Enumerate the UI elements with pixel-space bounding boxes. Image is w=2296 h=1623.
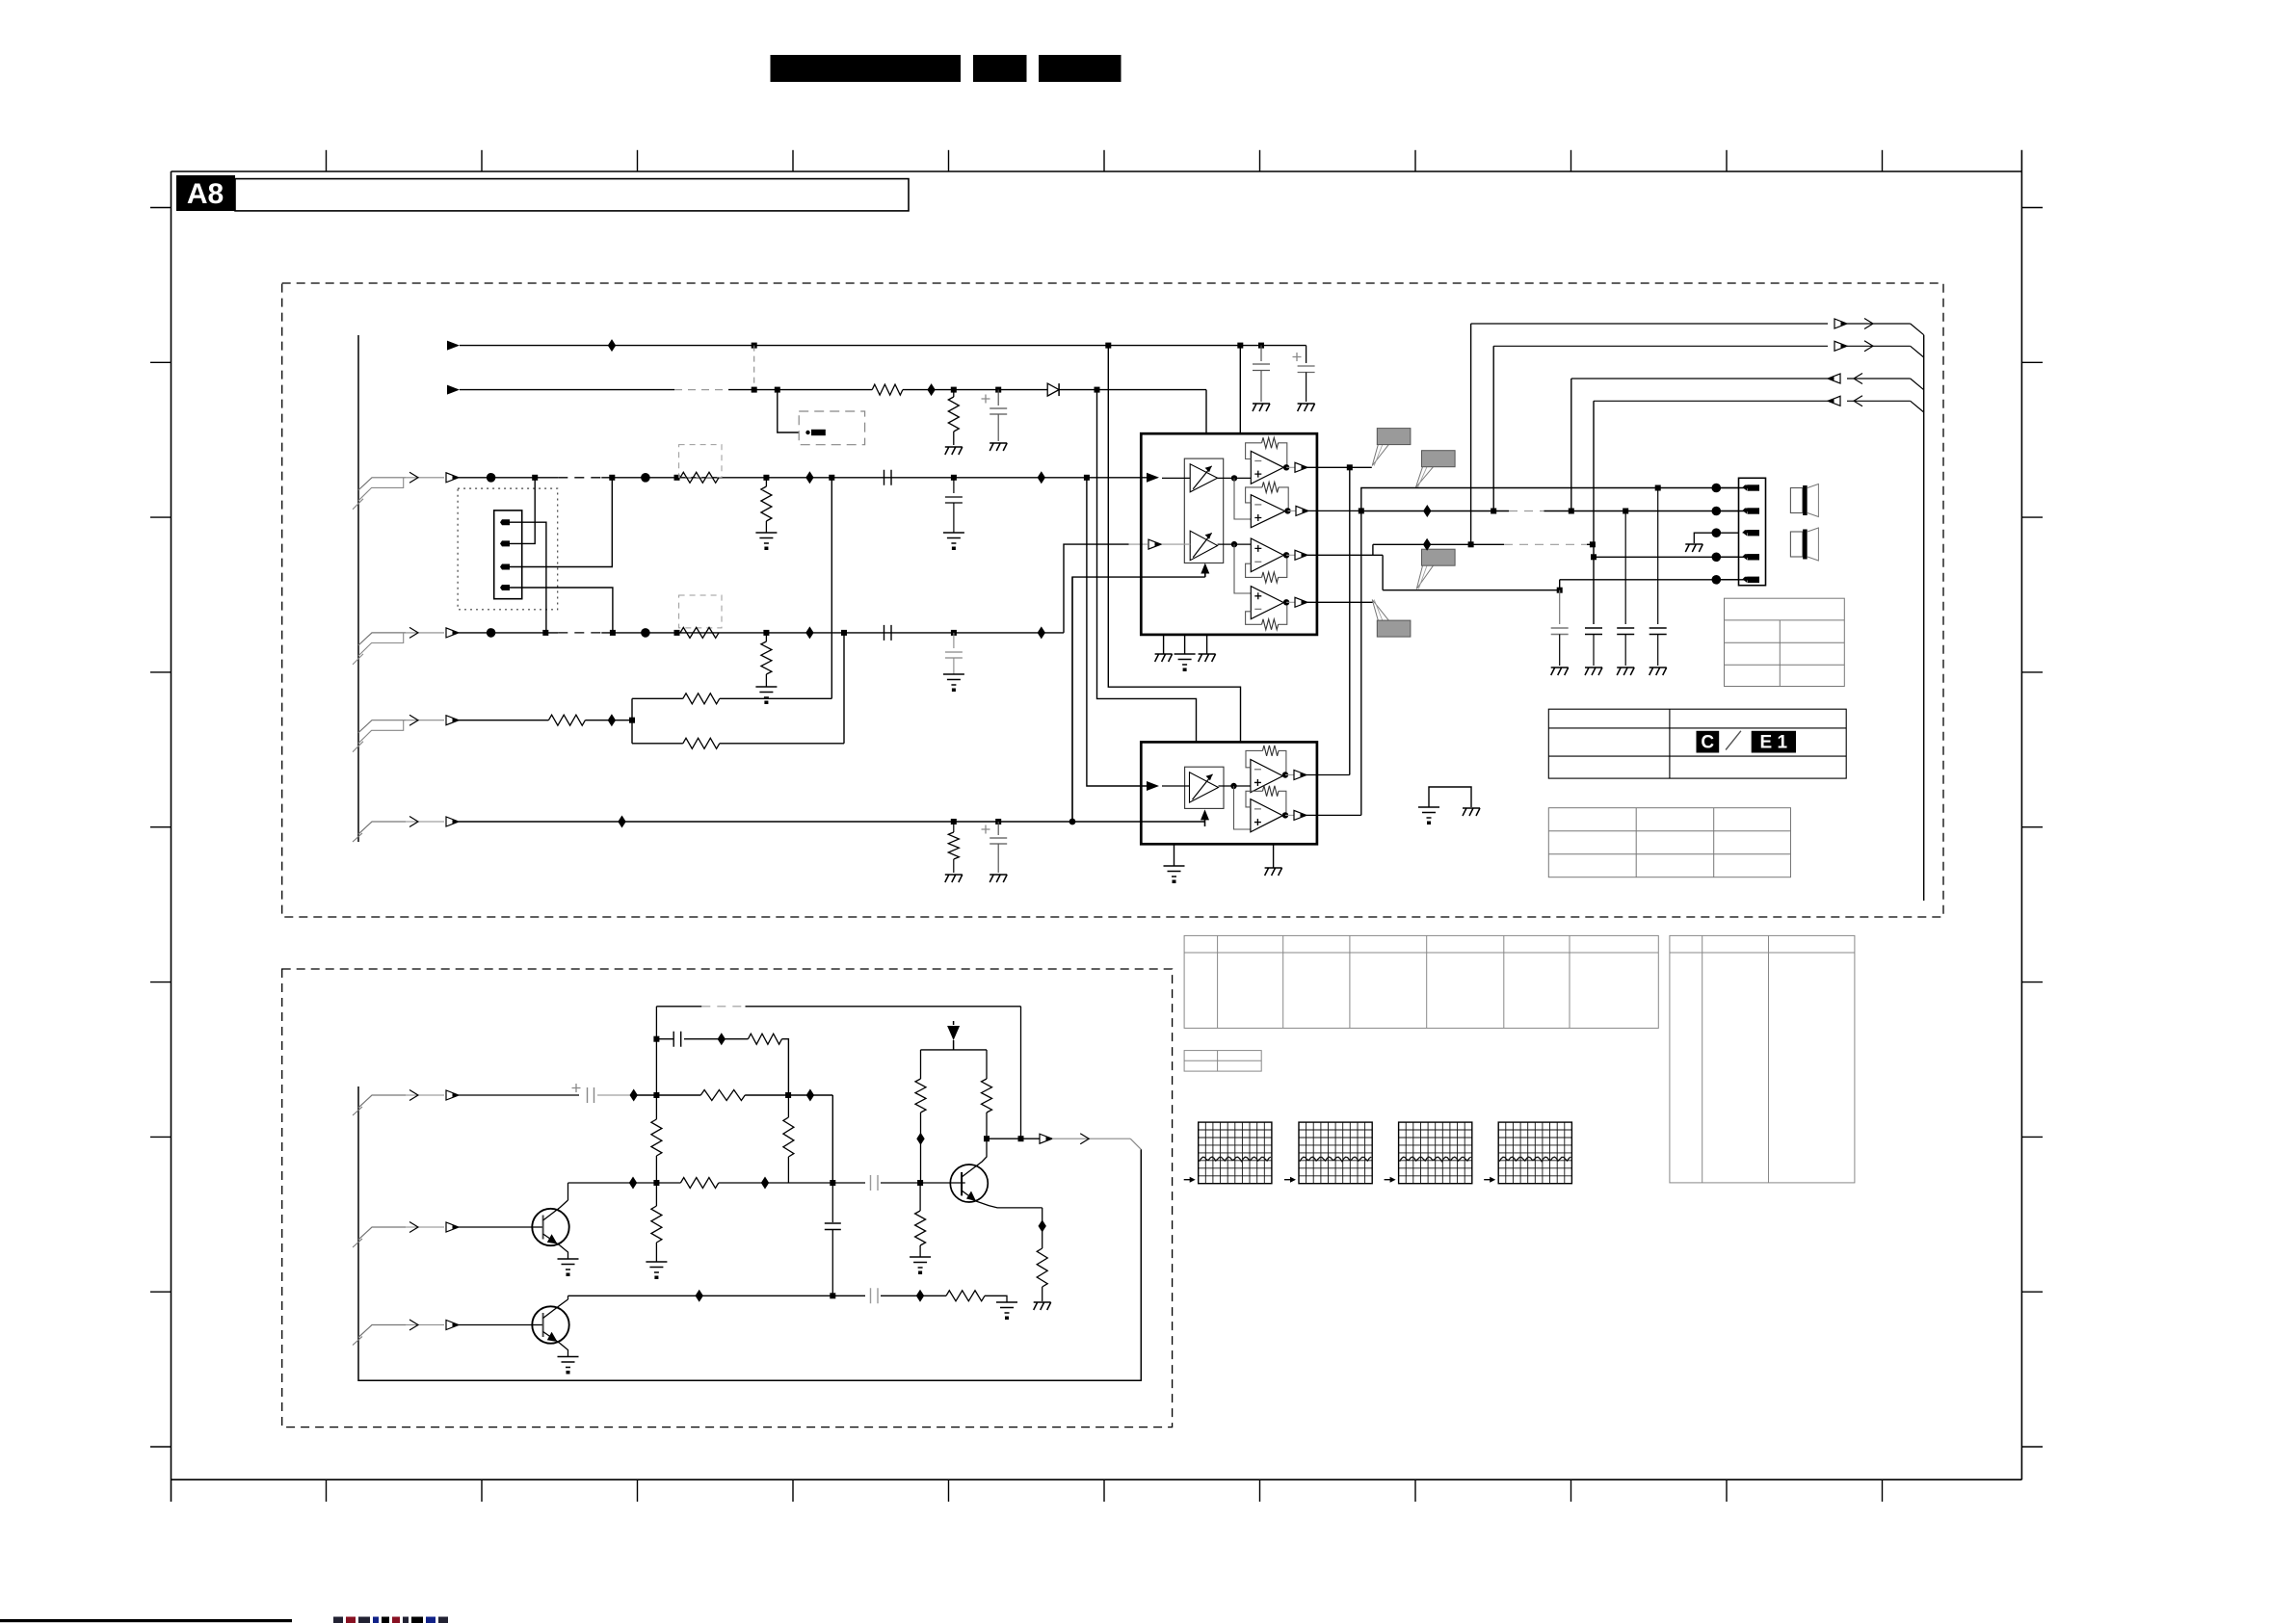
wire U1-2/U2-2 tie riser: [1360, 510, 1362, 815]
node route low riser: [1557, 588, 1563, 593]
junction diamond Q3 emitter: [1042, 1208, 1043, 1248]
wire L to IC2 input rail: [1087, 478, 1148, 786]
node line2 C-c tap: [995, 387, 1001, 393]
open arrow (buffer in 2): [446, 1222, 459, 1232]
chevron out1: [1864, 319, 1873, 329]
feedback resistor U1-1: [1279, 443, 1287, 468]
node B2 riser: [830, 1180, 835, 1186]
junction diamond vol: [618, 816, 625, 828]
node line C to D riser: [1590, 541, 1596, 547]
ground (C-Lg): [943, 533, 964, 543]
table T3 (notes): [1548, 808, 1790, 877]
audio block dashed boundary: [282, 283, 1943, 917]
terminal dot line D: [1712, 553, 1722, 563]
open arrow (R input): [446, 628, 459, 638]
capacitor C-c electrolytic (line2): [997, 390, 999, 406]
capacitor C-L series: [884, 470, 892, 485]
node L pin2 tap: [532, 475, 538, 481]
arrow into IC1 in1: [1147, 473, 1159, 483]
bus diagonal out2: [1911, 346, 1924, 357]
feedback resistor U1-2: [1279, 487, 1288, 511]
node U1-4 out: [1283, 599, 1289, 605]
U1 variable amp A2: [1190, 531, 1217, 561]
op-amp U1-2: [1251, 495, 1284, 528]
open arrow in1: [1828, 374, 1840, 383]
resistor R-B3: [946, 1291, 985, 1301]
test flag TP3: [1416, 565, 1433, 589]
connector CN2 pin 3: [1742, 530, 1750, 533]
node bus1 drop: [1468, 541, 1474, 547]
wire A2 out to op4+: [1234, 544, 1251, 593]
bundle entry diagonal (buffer in 3): [358, 1325, 406, 1338]
node line D start: [1591, 554, 1597, 560]
wire CN1 pin3 to L line: [510, 478, 612, 567]
open arrow (buffer in 3): [446, 1321, 459, 1330]
wire mono line: [459, 720, 548, 721]
node R shunt C tap: [951, 630, 957, 636]
node b1 bias: [653, 1092, 659, 1098]
node b1 fb: [785, 1092, 791, 1098]
node line1 to vertical rail: [1105, 343, 1111, 349]
junction diamond on line 1: [608, 339, 616, 352]
service jumper dashed box: [799, 411, 864, 445]
connector dotted enclosure: [458, 488, 558, 610]
arrow into IC2 input: [1147, 781, 1159, 791]
alt part dashed outline (R-L): [679, 445, 722, 478]
bus diagonal in2: [1911, 401, 1924, 412]
waveform W2 oscillogram grid: [1299, 1122, 1372, 1184]
node tie1: [1347, 464, 1353, 470]
node R pin4 tap: [610, 630, 616, 636]
sheet title box (blank): [235, 179, 909, 211]
capacitor C-B3 series (gray): [871, 1288, 879, 1303]
ground U2 pin a: [1174, 844, 1175, 866]
ground (bridge right): [1463, 808, 1480, 816]
wire to service jumper: [778, 390, 799, 432]
bus diagonal out1: [1911, 324, 1924, 335]
wire Q1 collector riser: [567, 1183, 569, 1200]
ground (C-sp1): [1551, 668, 1569, 675]
wire L line: [459, 477, 558, 479]
wire U2 amp out to op2+: [1234, 786, 1251, 829]
U1 variable amp A1: [1190, 464, 1217, 492]
ground (C-sp2): [1585, 668, 1602, 675]
wire buffer out (gray): [1052, 1138, 1130, 1139]
resistor R-vol shunt: [953, 822, 955, 832]
node vol IC1 branch: [1069, 819, 1076, 825]
wire U1-4 out: [1286, 601, 1295, 603]
mix resistor R-mixR: [632, 743, 683, 745]
bus wire out1: [1471, 323, 1828, 325]
op-amp U1-1: [1251, 451, 1283, 484]
wire bus3 riser: [1570, 379, 1572, 511]
node A2 out: [1218, 543, 1252, 545]
node U2-1 out: [1282, 772, 1288, 777]
wire after diode: [1059, 389, 1206, 391]
table T2 (version C/E1): [1548, 709, 1846, 778]
lower block dashed boundary: [282, 969, 1173, 1427]
junction diamond fb: [718, 1033, 726, 1045]
terminal dot line E: [1712, 575, 1722, 585]
resistor R-b1 series: [700, 1090, 745, 1101]
chevron arrow (mono input): [409, 715, 418, 725]
capacitor C-b electrolytic (line1): [1306, 346, 1307, 363]
node L series R tap: [674, 475, 680, 481]
ground (C-sp4): [1649, 668, 1667, 675]
ground (C-b): [1298, 404, 1315, 411]
connector CN2 pin 2: [1742, 509, 1750, 511]
supply feed arrow: [953, 1021, 955, 1025]
open arrow out1: [1834, 319, 1847, 328]
connector CN1 pin 4: [497, 585, 510, 590]
connector CN1 pin 2: [497, 540, 510, 546]
feedback resistor U1-3: [1279, 555, 1287, 577]
speaker SP1: [1790, 488, 1803, 513]
U1 control arrow: [1204, 573, 1206, 577]
connector CN1 pin 1: [497, 519, 510, 525]
wire CN1 pin4 to R line: [510, 588, 613, 633]
wire line1 rail to IC2 Vcc: [1108, 346, 1240, 743]
wire R line: [459, 632, 558, 634]
chevron arrow (buffer in 1): [409, 1090, 418, 1101]
wire U1 in1 to A1: [1162, 477, 1190, 479]
wire buffer in1: [459, 1094, 579, 1096]
U2 control arrow: [1204, 820, 1206, 826]
sheet border grid ticks: [150, 150, 2043, 1502]
wire top rail drop: [1020, 1007, 1022, 1139]
wire bus2 riser: [1492, 346, 1494, 510]
node line1 cap C-a tap: [1258, 343, 1264, 349]
diode D1: [1047, 383, 1059, 396]
bundle pair return (L input): [358, 478, 404, 501]
wire R riser to IC1 in2: [1064, 544, 1129, 633]
bundle entry diagonal (buffer in 1): [358, 1095, 406, 1108]
resistor R-bias2: [655, 1183, 657, 1206]
node L pin3 tap: [609, 475, 615, 481]
resistor R-e3: [1037, 1248, 1047, 1287]
bundle pair return (R input): [358, 633, 404, 656]
U1 volume cell box: [1184, 458, 1223, 563]
wire Q2 collector riser: [567, 1296, 569, 1299]
resistor R-L series: [680, 472, 719, 483]
connector CN2 pin 4: [1742, 554, 1750, 557]
chevron arrow (L input): [409, 472, 418, 483]
junction diamond R: [805, 626, 813, 639]
capacitor C-fb series: [673, 1032, 681, 1047]
table T5 (small legend): [1184, 1051, 1261, 1072]
buffer out corner diagonal: [1130, 1139, 1141, 1149]
bundle entry diagonal (mono input): [358, 720, 406, 733]
wire bus1 riser: [1470, 324, 1472, 544]
ground pigtail CN2 pin3: [1712, 528, 1722, 537]
wire speaker line C: [1373, 543, 1504, 545]
ground (C-Rg): [943, 674, 964, 685]
buffer block trunk / frame: [358, 1086, 1141, 1380]
node line1 IC1 Vcc drop: [1237, 343, 1243, 349]
ground U1 pin b: [1184, 635, 1186, 654]
bundle entry diagonal (R input): [358, 633, 406, 645]
wire feedback mid rail: [656, 1038, 673, 1040]
version tag C: [1697, 731, 1720, 753]
wire speaker line B (SP L-): [1361, 510, 1509, 512]
open arrow (mono input): [446, 716, 459, 725]
wire U1-3 out: [1286, 554, 1295, 556]
wire Q2 in: [459, 1324, 533, 1326]
junction diamond B3-a: [696, 1290, 703, 1302]
resistor R-c2 (right): [986, 1050, 988, 1079]
wire speaker line A (SP L+): [1361, 488, 1748, 511]
speaker connector CN2 body: [1739, 478, 1766, 585]
wire supply line 1: [460, 345, 1306, 347]
capacitor C-Lg shunt: [953, 478, 955, 493]
bundle entry diagonal (L input): [358, 478, 406, 490]
sheet label A8: [176, 175, 235, 211]
op-amp IC U2 body: [1141, 742, 1317, 844]
wire base line B2: [568, 1182, 681, 1184]
resistor R-b1b (interstage): [787, 1095, 789, 1117]
test point dot R-b: [641, 628, 650, 638]
node line2 dashed tap: [752, 387, 757, 393]
capacitor C-b1 electrolytic series: [572, 1084, 581, 1092]
junction diamond line 2: [927, 383, 935, 396]
wire speaker line E (SP R-): [1560, 579, 1748, 581]
node bus3 drop: [1569, 509, 1574, 514]
wire U1-2 out: [1288, 510, 1297, 511]
node U1-2 out: [1284, 508, 1290, 513]
node B2 Q3 base divider: [917, 1180, 923, 1186]
version slash: [1726, 731, 1741, 750]
wire U1-3 branch up: [1372, 544, 1374, 555]
wire U1-3 branch down: [1382, 555, 1384, 589]
footer rule bar: [0, 1619, 292, 1622]
wire Q1 in: [459, 1226, 533, 1228]
wire A1 out to op2+: [1234, 478, 1251, 519]
terminal dot line A: [1712, 484, 1722, 493]
wire speaker line D (SP R+): [1594, 556, 1748, 558]
junction diamond L2: [1038, 471, 1045, 484]
node L mono-mix tap: [829, 475, 834, 481]
waveform W3 oscillogram grid: [1399, 1122, 1472, 1184]
node diode line rail tap: [1095, 387, 1100, 393]
junction diamond R2: [1038, 626, 1045, 639]
connector CN2 pin 5: [1742, 577, 1750, 580]
table T1 (speaker spec): [1725, 598, 1845, 686]
ground (Q2 emitter): [558, 1357, 579, 1368]
open arrow (buffer in 1): [446, 1090, 459, 1100]
U2 volume cell box: [1185, 767, 1224, 808]
capacitor C-B2 series (gray): [871, 1175, 879, 1191]
feedback resistor U2-1: [1279, 750, 1286, 774]
op-amp U1-3: [1251, 538, 1283, 572]
wire mixR riser (joins R line): [843, 633, 845, 744]
svg-text:C: C: [1701, 733, 1714, 753]
bus wire out2: [1493, 345, 1828, 347]
chevron in1: [1854, 374, 1862, 384]
node L shunt C tap: [951, 475, 957, 481]
resistor R-b3 (lower): [919, 1183, 921, 1211]
chevron buffer out: [1080, 1134, 1089, 1144]
junction diamond B2-a: [629, 1177, 637, 1190]
bus wire in1: [1571, 378, 1828, 380]
node line2 jumper tap: [775, 387, 780, 393]
open arrow IC1 in2: [1148, 539, 1161, 549]
node L shunt R tap: [763, 475, 769, 481]
ground U1 pin a: [1163, 635, 1165, 654]
node output/top rail: [1018, 1136, 1024, 1141]
resistor R-l2 (series): [872, 384, 903, 395]
op-amp U2-1: [1251, 760, 1283, 793]
ground (C-a): [1253, 404, 1270, 411]
ground (Q1 emitter): [558, 1259, 579, 1270]
junction diamond L: [805, 471, 813, 484]
chevron arrow (buffer in 2): [409, 1222, 418, 1233]
wire R to IC1 in2 (gray): [1129, 543, 1148, 545]
dashed link line1-line2: [753, 346, 755, 390]
ground (R-div): [945, 447, 963, 455]
node vol cap tap: [995, 819, 1001, 825]
resistor R-c1 (left): [920, 1050, 922, 1079]
connector CN1 pin 3: [497, 564, 510, 570]
junction diamond B3-b: [916, 1290, 924, 1302]
wire buffer output: [987, 1138, 1042, 1139]
op-amp IC U1 body: [1141, 433, 1317, 635]
test flag TP2: [1416, 467, 1434, 487]
junction diamond line C: [1423, 538, 1431, 551]
input cable trunk (top block): [357, 335, 359, 842]
open arrow out2: [1834, 341, 1847, 351]
transistor Q2: [532, 1306, 568, 1343]
junction diamond mono: [608, 714, 616, 726]
node bus2 drop: [1491, 509, 1496, 514]
open arrow (volume control): [446, 817, 459, 826]
bias rail x=681: [655, 1007, 657, 1095]
bundle entry diagonal (volume control): [358, 822, 406, 834]
interface bus vertical: [1923, 335, 1925, 901]
redacted title bar 1: [771, 55, 962, 82]
node L IC2 tap: [1084, 475, 1090, 481]
waveform W1 oscillogram grid: [1199, 1122, 1272, 1184]
resistor R-Rg shunt: [765, 633, 767, 641]
node line B cap tap: [1623, 509, 1628, 514]
chevron arrow (volume control): [409, 817, 418, 827]
open arrow (L input): [446, 473, 459, 483]
op-amp U2-2: [1251, 799, 1283, 832]
transistor Q1: [532, 1209, 568, 1245]
node R series R tap: [674, 630, 680, 636]
resistor R-Lg shunt: [765, 478, 767, 486]
junction diamond R-c1: [916, 1133, 924, 1145]
node tie2: [1359, 508, 1364, 513]
ground (R-B3): [996, 1302, 1017, 1313]
node mono split: [629, 718, 635, 723]
node U2-2 out: [1282, 812, 1288, 818]
connector CN2 pin 1: [1742, 485, 1750, 488]
node R mono-mix tap: [841, 630, 847, 636]
wire U1-1 out: [1286, 466, 1295, 468]
feedback resistor U2-2: [1279, 791, 1286, 815]
wire U2-2 out: [1285, 814, 1294, 816]
node U2 amp out: [1219, 785, 1251, 787]
node A1 out: [1218, 477, 1252, 479]
alt part dashed outline (R-R): [679, 595, 722, 628]
supply tee: [921, 1049, 988, 1051]
test point dot R-a: [487, 628, 496, 638]
ground (C-c): [990, 443, 1007, 451]
jumper J1: [805, 431, 809, 434]
wire b1 riser down: [831, 1095, 833, 1183]
open arrow buffer out: [1040, 1134, 1052, 1143]
speaker SP2: [1790, 532, 1803, 557]
wire CN1 pin2 to L line: [510, 478, 535, 544]
node R shunt R tap: [763, 630, 769, 636]
table T6 (revision column): [1670, 935, 1855, 1183]
chevron in2: [1854, 396, 1862, 406]
supply line 1 arrow: [447, 341, 460, 351]
bundle pair return (mono input): [358, 720, 404, 744]
test point dot L-b: [641, 473, 650, 483]
op-amp U1-4: [1251, 587, 1283, 619]
transistor Q3: [950, 1165, 988, 1202]
sheet border: [172, 170, 2022, 172]
capacitor C-Rg shunt: [953, 633, 955, 648]
resistor R-fb: [748, 1034, 781, 1044]
footer fine print (redacted color text): [333, 1617, 448, 1623]
redacted title bar 3: [1039, 55, 1122, 82]
terminal dot line B: [1712, 507, 1722, 516]
connector CN1 body: [494, 510, 522, 599]
waveform W4 oscillogram grid: [1498, 1122, 1571, 1184]
version tag E1: [1752, 731, 1796, 753]
node vol shunt R tap: [951, 819, 957, 825]
node U1-3 out: [1283, 552, 1289, 558]
ground (bridge left): [1418, 807, 1439, 818]
node Q3 collector: [984, 1136, 990, 1141]
wire diode line to IC1 top: [1205, 390, 1207, 434]
resistor R-mono: [548, 715, 585, 725]
wire U1-3 route low: [1383, 589, 1560, 591]
ground U1 pin c: [1206, 635, 1208, 654]
junction diamond b1-2: [806, 1089, 814, 1102]
ground (C-sp3): [1617, 668, 1634, 675]
supply line 2 arrow: [447, 385, 460, 395]
wire U2-1 out: [1285, 774, 1294, 776]
U2 variable amp: [1190, 772, 1219, 802]
wire volume control line: [459, 821, 1205, 823]
node line A cap tap: [1655, 485, 1661, 491]
test point dot L-a: [487, 473, 496, 483]
test flag TP4: [1372, 600, 1388, 621]
feedback resistor U1-4: [1279, 602, 1287, 624]
chevron out2: [1864, 341, 1873, 352]
ground (R-Lg): [755, 533, 777, 543]
capacitor C-a (line1 decoupling): [1260, 346, 1262, 361]
node line1/dashed tap: [752, 343, 757, 349]
junction diamond B2-b: [761, 1177, 769, 1190]
ground (R-e3): [1034, 1302, 1051, 1310]
capacitor C-vol electrolytic: [997, 822, 999, 835]
node bias/B2: [653, 1180, 659, 1186]
wire U1 in2 to A2: [1162, 543, 1190, 545]
wire IC1 Vcc drop: [1239, 346, 1241, 434]
wire mixL riser (joins L line): [831, 478, 832, 699]
wire U1-1/U2-1 tie riser: [1349, 467, 1351, 774]
ground (R-vol): [945, 875, 963, 882]
wire riser to line E: [1559, 580, 1561, 590]
wire fb corner down: [782, 1039, 789, 1095]
node line2 R-div tap: [951, 387, 957, 393]
capacitor C-sp3: [1624, 511, 1626, 625]
wire vol rail to IC2 control: [1071, 577, 1073, 822]
